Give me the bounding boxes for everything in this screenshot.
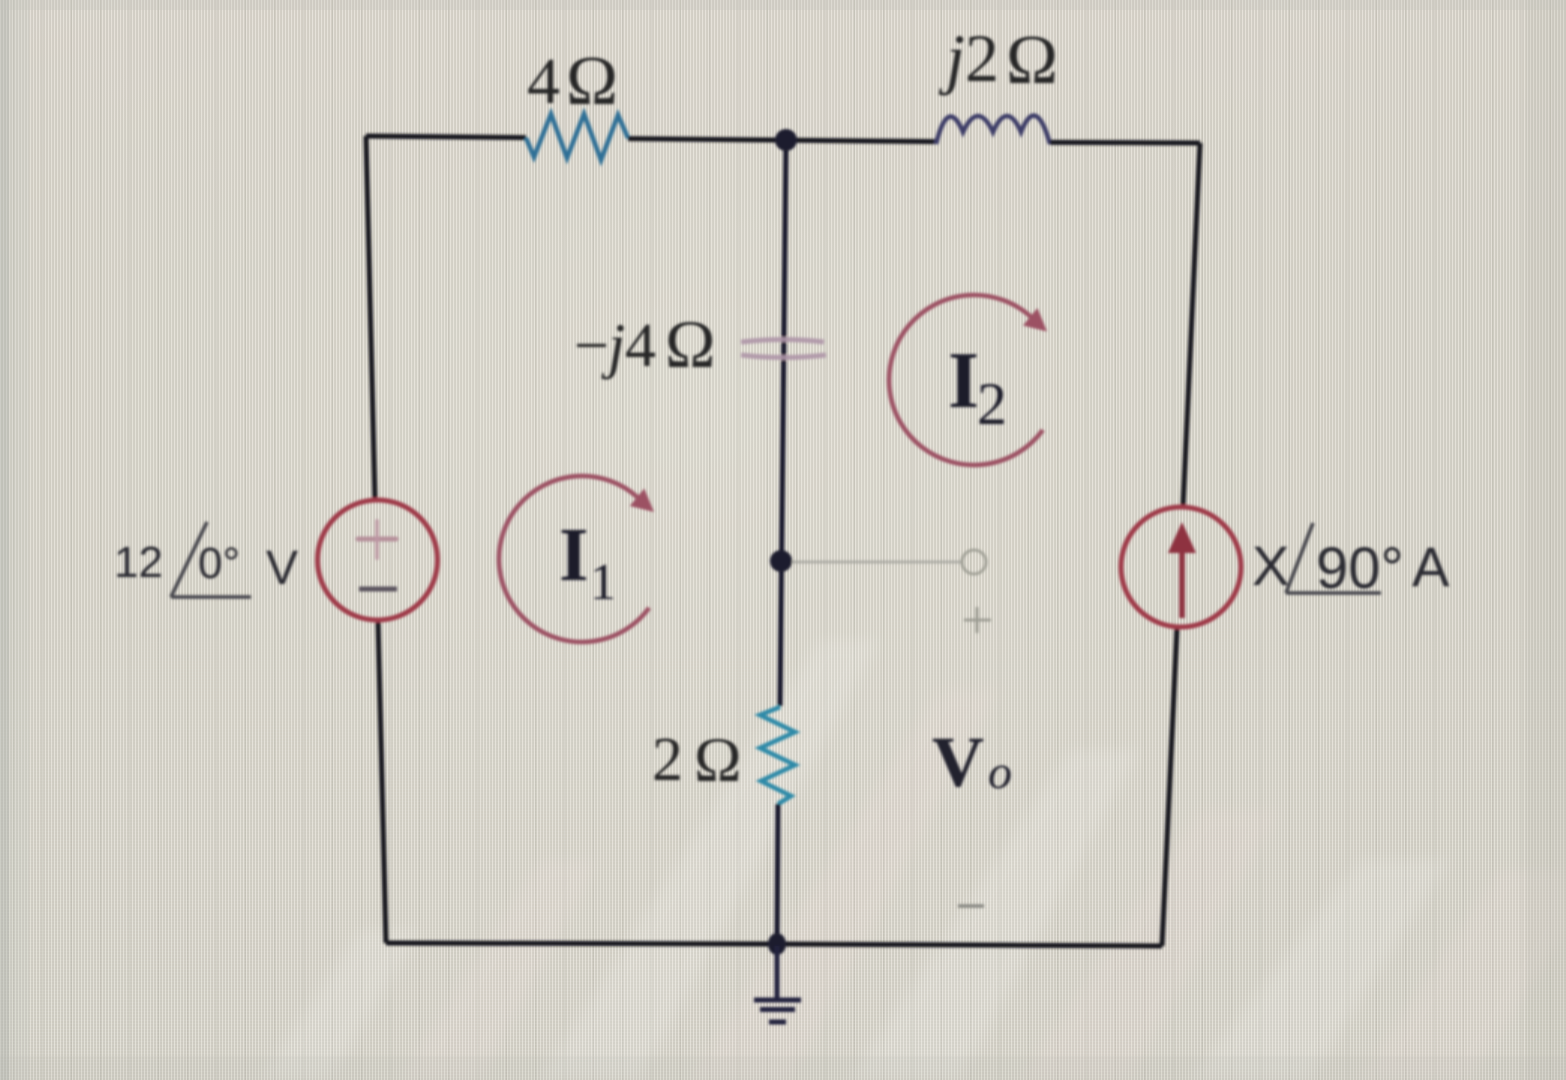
wire right side lower <box>1162 628 1177 946</box>
svg-text:X: X <box>1252 534 1289 597</box>
minus sign of Vo <box>958 904 984 908</box>
label I2 <box>948 337 1007 437</box>
svg-text:o: o <box>988 746 1012 799</box>
plus sign of Vo <box>964 607 991 633</box>
resistor 2ohm zigzag <box>760 707 795 804</box>
ground <box>754 946 801 1022</box>
wire top-mid <box>628 139 936 142</box>
inductor j2ohm <box>936 116 1050 144</box>
voltage source VS1 circle <box>318 500 438 620</box>
svg-text:2: 2 <box>965 20 999 96</box>
current source arrow <box>1168 522 1196 618</box>
label I1 <box>559 513 616 611</box>
wire left side lower <box>378 620 386 943</box>
node bottom <box>768 933 786 955</box>
angle symbol left <box>171 522 251 597</box>
svg-text:V: V <box>932 722 984 802</box>
label j2 ohm <box>938 20 1058 99</box>
label X angle 90 A <box>1252 534 1450 601</box>
wire center vertical upper <box>780 140 786 706</box>
svg-text:V: V <box>266 542 298 595</box>
resistor 4ohm zigzag <box>526 114 628 160</box>
svg-text:1: 1 <box>590 554 616 611</box>
capacitor -j4ohm plates <box>741 340 826 358</box>
label 2 ohm <box>652 724 742 795</box>
svg-text:−: − <box>574 312 609 380</box>
voltage source minus <box>359 587 397 592</box>
svg-text:0°: 0° <box>198 539 240 588</box>
output terminal circle <box>962 550 986 574</box>
voltage source plus <box>358 521 396 558</box>
current source IS1 circle <box>1121 507 1241 627</box>
wire bottom <box>386 943 1162 946</box>
label 4 ohm <box>527 43 618 120</box>
svg-text:4: 4 <box>527 45 560 118</box>
label Vo <box>932 722 1012 802</box>
wire left side upper <box>366 136 375 501</box>
angle symbol right <box>1286 523 1381 593</box>
svg-text:4: 4 <box>625 312 656 380</box>
wire top-right <box>1050 140 1200 146</box>
svg-text:12: 12 <box>114 538 163 587</box>
wire top-left horizontal <box>366 136 526 138</box>
svg-text:Ω: Ω <box>566 43 618 120</box>
svg-text:A: A <box>1412 535 1450 598</box>
wire center vertical lower <box>777 804 778 944</box>
mesh current I1 loop <box>499 476 654 642</box>
label 12 angle 0 V <box>114 538 298 595</box>
mesh current I2 loop <box>889 295 1047 465</box>
svg-text:Ω: Ω <box>665 306 716 382</box>
svg-text:2: 2 <box>652 726 683 794</box>
label -j4 ohm <box>574 306 716 382</box>
diagonal light streaks bottom <box>260 640 1566 1080</box>
svg-text:2: 2 <box>977 371 1007 437</box>
svg-text:I: I <box>559 513 589 597</box>
svg-text:Ω: Ω <box>694 724 742 795</box>
svg-text:Ω: Ω <box>1006 22 1058 99</box>
svg-text:I: I <box>948 337 979 425</box>
output faint line <box>792 561 961 564</box>
wire right side upper <box>1183 143 1200 507</box>
node top <box>775 129 797 151</box>
node center <box>770 550 792 572</box>
